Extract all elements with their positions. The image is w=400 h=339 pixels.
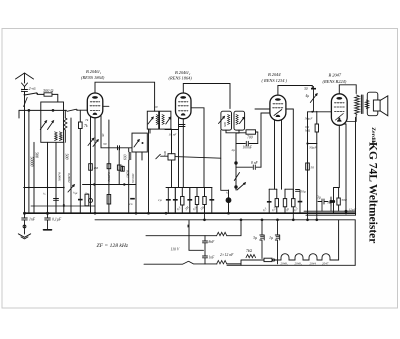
wire tube1 screen (101, 115, 132, 148)
variable capacitor C2 (48, 121, 54, 130)
heater dropper resistor 7k (241, 249, 256, 258)
capacitor (small) (54, 194, 59, 213)
wire (236, 130, 239, 133)
speaker (367, 92, 388, 116)
misc small value labels (43, 105, 300, 213)
filter capacitor 1uF (269, 220, 280, 264)
resistor (337, 188, 347, 212)
svg-text:100nF: 100nF (243, 146, 253, 150)
svg-text:30: 30 (101, 133, 105, 137)
wire tube4 anode to OT (347, 114, 356, 121)
main grid wire (left) (19, 109, 87, 112)
wire bottom return (227, 264, 355, 266)
capacitor 8nF (203, 236, 216, 256)
svg-text:2×12 nF: 2×12 nF (220, 253, 234, 257)
resistor column x109 (101, 120, 111, 213)
wire box A down (136, 129, 150, 213)
capacitor 1nF to earth (22, 213, 36, 232)
terminal (273, 259, 275, 261)
wire to tube3 grid (260, 113, 262, 167)
resistor below tube1 (89, 164, 98, 171)
resistor (181, 188, 184, 214)
dropper resistor bottom (217, 261, 241, 264)
IF box B (160, 111, 171, 129)
filter capacitor 3uF (253, 220, 264, 259)
wire left stub (187, 225, 189, 227)
variable capacitor trimmer (310, 94, 317, 103)
grid resistor 75 (79, 110, 88, 213)
wire mains bottom with switch (144, 261, 217, 264)
switch (antenna tap) (24, 93, 44, 96)
resistor 500 (value on wire) (64, 142, 70, 213)
svg-text:110 V: 110 V (171, 248, 180, 252)
coil 600 (124, 148, 132, 213)
heater 2044 (309, 254, 317, 260)
resistor Eq50 (306, 163, 315, 170)
speaker voice coil (365, 100, 369, 108)
wire tube4 top (339, 85, 356, 94)
svg-text:3µ: 3µ (327, 201, 331, 205)
svg-text:500: 500 (59, 135, 63, 140)
lower filter box (132, 133, 147, 152)
tube U1 B2046/1 (87, 93, 103, 118)
svg-text:50µ: 50µ (301, 190, 306, 194)
wire (47, 142, 49, 213)
transformer core (361, 95, 363, 114)
capacitor blob x132 (130, 198, 135, 200)
potentiometer (226, 190, 232, 213)
svg-text:(RENS 1864): (RENS 1864) (169, 76, 193, 81)
wire tube4 bottom leads (334, 124, 347, 214)
resistor 700 (226, 130, 258, 144)
svg-text:50: 50 (311, 166, 315, 170)
resistor zigzag (antenna coupling) (64, 110, 67, 142)
wire (70, 118, 72, 213)
wire tube3 top (278, 86, 312, 96)
svg-text:B 2046/₂: B 2046/₂ (175, 70, 191, 75)
svg-text:2044: 2044 (310, 261, 317, 265)
resistor 300 ohm (44, 93, 58, 102)
resistor (203, 188, 206, 214)
bracket A (267, 189, 279, 213)
svg-text:7k: 7k (84, 124, 88, 128)
wire IF box B bottom (165, 129, 179, 131)
wire tube3 leads (275, 121, 282, 190)
wire heater to bus (330, 220, 339, 260)
heater 2046/2 (295, 254, 303, 260)
coil L1 (55, 132, 58, 141)
wire (307, 112, 309, 215)
capacitor (small) (63, 204, 65, 206)
wire (303, 259, 309, 261)
wire tube2 anode (191, 108, 204, 188)
wire tube3 grid left (255, 109, 270, 113)
lower supply bus (95, 219, 355, 221)
tube U2 B2046/2 (176, 93, 192, 119)
junction (182, 114, 184, 116)
wire left edge stub (18, 110, 20, 118)
resistor column x119 (83, 148, 137, 186)
wire tube1 top cap (95, 82, 155, 111)
svg-text:2046₂: 2046₂ (295, 261, 303, 265)
svg-text:3µ: 3µ (253, 235, 257, 240)
capacitor 2+6 (antenna series) (21, 87, 27, 95)
switch mark (234, 173, 239, 181)
junction dots row (28, 187, 65, 189)
resistor 0.2M (304, 111, 319, 149)
capacitor 1nF (203, 256, 216, 264)
output transformer primary (355, 95, 360, 114)
svg-text:MΩ: MΩ (304, 128, 311, 132)
capacitor (173, 188, 178, 214)
wire (235, 133, 237, 190)
wire (317, 259, 322, 261)
capacitor (318, 199, 328, 204)
svg-text:1n: 1n (129, 202, 133, 206)
heater 2046/1 (281, 254, 289, 260)
wire mains mid (189, 236, 204, 251)
svg-text:8nF: 8nF (209, 240, 216, 244)
svg-text:500: 500 (65, 154, 70, 160)
capacitor 8nF (236, 165, 261, 169)
svg-text:7kΩ: 7kΩ (246, 249, 252, 253)
svg-text:8 nF: 8 nF (251, 161, 258, 165)
wire (316, 144, 318, 216)
wire osc box1 lead down to potentiometer (221, 130, 229, 190)
svg-text:1nF: 1nF (209, 256, 216, 260)
svg-text:2046₁: 2046₁ (281, 261, 288, 265)
wire tube1 cathode (90, 117, 92, 213)
svg-text:30: 30 (304, 87, 308, 91)
capacitor 30pF (304, 87, 316, 112)
svg-text:500: 500 (223, 122, 227, 127)
wire (28, 110, 30, 213)
wire (275, 259, 281, 261)
svg-text:ZF = 128 kHz: ZF = 128 kHz (97, 243, 129, 249)
dropper resistor top (205, 220, 241, 236)
svg-text:1nF: 1nF (29, 218, 36, 222)
oscillator coil box 2 (234, 111, 245, 130)
capacitor blob x80 (78, 199, 83, 201)
wire thin upper bus (31, 205, 95, 207)
wire mains top (146, 221, 205, 236)
svg-text:1µ: 1µ (269, 235, 273, 240)
tube U4 B2047 (331, 94, 347, 126)
bus junction dots (23, 205, 318, 221)
wire lower right horizontals (306, 214, 355, 216)
AVC line (175, 157, 221, 159)
svg-text:500: 500 (55, 135, 59, 140)
wire right loop (354, 220, 356, 265)
svg-text:B 2046/₁: B 2046/₁ (86, 69, 102, 74)
svg-text:30: 30 (103, 142, 107, 146)
capacitor 12uF (345, 208, 357, 213)
wire tube3 anode right (286, 109, 293, 198)
wire grid to tube4 (308, 111, 332, 113)
capacitor (329, 197, 332, 206)
switch arrow (68, 185, 74, 192)
antenna (16, 73, 34, 87)
band filter box 1 (40, 102, 63, 142)
wire (33, 142, 35, 213)
resistor (heater series) (264, 258, 272, 261)
svg-text:B 2047: B 2047 (329, 73, 342, 78)
junction (311, 111, 313, 113)
main ground bus (25, 212, 356, 214)
svg-text:500: 500 (163, 151, 167, 156)
switch contact on antenna line (24, 98, 28, 107)
wire tube1 anode exit (103, 105, 109, 107)
wire tube2 leads (179, 118, 184, 188)
wire OT secondary down (355, 117, 357, 215)
svg-text:700: 700 (247, 136, 253, 140)
svg-text:( RENS 1234 ): ( RENS 1234 ) (262, 78, 288, 83)
tube U3 B2044 (270, 95, 286, 121)
earth ground (18, 233, 30, 239)
coil L2 (59, 132, 62, 141)
svg-text:B 2044: B 2044 (268, 72, 281, 77)
svg-text:300 Ω: 300 Ω (43, 88, 53, 93)
svg-text:50 000: 50 000 (131, 173, 135, 183)
link wire (24, 187, 64, 189)
heater labels (281, 261, 329, 265)
capacitor 1uF (158, 188, 171, 214)
wire (289, 259, 295, 261)
capacitor leg (298, 190, 303, 213)
capacitor 50uF marks (296, 190, 300, 192)
wire antenna down to bus (24, 91, 26, 213)
svg-text:500: 500 (35, 152, 40, 158)
bracket B (283, 189, 295, 213)
chassis bar (44, 229, 52, 231)
IF box A (147, 111, 158, 129)
wire (55, 142, 57, 213)
svg-text:2+6: 2+6 (29, 86, 37, 91)
svg-text:2047: 2047 (322, 261, 329, 265)
wire tube2 top cap (183, 84, 230, 109)
resistor box above bus x86 (85, 194, 93, 206)
resistor (195, 188, 198, 214)
variable capacitor C1 (40, 121, 46, 130)
svg-text:½µ: ½µ (73, 191, 78, 195)
wire IF box B to cathode resistor (171, 129, 173, 149)
heater 2047 (322, 254, 330, 260)
switch arrow (237, 183, 245, 190)
svg-text:30µF: 30µF (309, 146, 318, 150)
wire (166, 187, 212, 189)
svg-text:3n: 3n (85, 192, 89, 196)
svg-text:KG 74L Weltmeister: KG 74L Weltmeister (367, 142, 379, 243)
capacitor (209, 188, 214, 214)
capacitor (coupling) (179, 125, 185, 127)
capacitor (187, 188, 192, 214)
wire tube1 anode lead (94, 118, 96, 213)
svg-text:4µ: 4µ (306, 94, 310, 98)
svg-text:600: 600 (124, 154, 128, 160)
wire heater row (241, 260, 264, 265)
capacitor 0.1uF to chassis (45, 213, 62, 229)
svg-text:1µ: 1µ (158, 198, 162, 202)
svg-text:3µ: 3µ (317, 196, 321, 200)
oscillator coil box 1 (219, 111, 232, 130)
svg-text:7k: 7k (85, 118, 89, 122)
switch contacts below tube1 (88, 138, 98, 146)
svg-text:(RENS B224): (RENS B224) (323, 79, 347, 84)
wire thin right bus (304, 210, 355, 212)
capacitor in screen wire (118, 146, 120, 150)
resistor 500 (tube2 cathode) (156, 130, 229, 191)
svg-text:1M: 1M (94, 166, 99, 170)
svg-text:10 nF: 10 nF (169, 133, 178, 137)
capacitor 100nF (236, 141, 258, 145)
wire stubs to lower bus (205, 204, 332, 220)
svg-text:50µF: 50µF (305, 117, 314, 121)
svg-text:2µ: 2µ (232, 148, 236, 152)
svg-text:(RENS 1864): (RENS 1864) (81, 75, 105, 80)
junction dots on x236 (234, 161, 237, 164)
svg-text:30: 30 (154, 105, 158, 109)
